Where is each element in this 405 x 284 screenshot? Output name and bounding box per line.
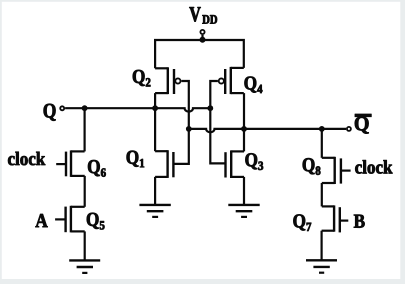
wire node Q (hop over left gate wire) xyxy=(65,108,210,111)
junction left inverter output on Q xyxy=(152,105,158,111)
ground of Q5 xyxy=(69,260,100,273)
label input B xyxy=(354,215,365,228)
junction right gates on Q xyxy=(207,105,213,111)
transistor Q8 xyxy=(322,157,351,184)
Q terminal xyxy=(60,106,64,110)
ground of Q3 xyxy=(228,205,259,217)
node Q label xyxy=(44,104,56,121)
wire VDD stem xyxy=(201,35,203,40)
label Q7 xyxy=(293,214,311,231)
junction right inverter output on Qbar xyxy=(241,126,247,132)
label input A xyxy=(35,214,47,227)
label Q1 xyxy=(127,151,144,168)
wire Q7 source to ground xyxy=(321,231,323,261)
wire Q4 drain to Q3 drain xyxy=(243,93,245,151)
overline of Qbar xyxy=(355,114,371,117)
ground of Q7 xyxy=(306,260,337,272)
wire Q6 source to Q5 drain xyxy=(84,176,86,207)
node Qbar label xyxy=(355,117,369,134)
transistor Q3 xyxy=(226,150,245,178)
label clock (left) xyxy=(8,152,45,165)
wire Q2 drain to Q1 drain xyxy=(154,93,156,151)
wire Q to Q6 drain xyxy=(83,108,85,151)
VDD terminal xyxy=(200,30,204,34)
wire Q3 source to ground xyxy=(243,177,245,205)
wire Q5 source to ground xyxy=(84,231,86,261)
transistor Q4 xyxy=(219,67,244,94)
wire Q8 source to Q7 drain xyxy=(321,183,323,206)
label Q8 xyxy=(303,158,321,175)
label Q4 xyxy=(245,76,263,93)
label Q2 xyxy=(133,70,151,87)
junction Q to input branch xyxy=(82,105,88,111)
label clock (right) xyxy=(355,160,392,173)
wire Q2 and Q1 gates to Qbar xyxy=(173,81,188,164)
wire Q4 and Q3 gates to Q xyxy=(210,81,225,163)
transistor Q1 xyxy=(155,150,173,178)
transistor Q2 xyxy=(155,67,180,94)
label Q5 xyxy=(87,213,105,230)
wire VDD rail xyxy=(155,40,244,68)
transistor Q7 xyxy=(322,205,349,232)
transistor Q6 xyxy=(56,150,84,177)
label Q6 xyxy=(88,160,106,177)
wire Q1 source to ground xyxy=(154,177,156,205)
ground of Q1 xyxy=(139,205,170,217)
Qbar terminal xyxy=(347,127,351,131)
wire Qbar to Q8 drain xyxy=(321,129,323,158)
label Q3 xyxy=(245,153,263,170)
junction VDD rail xyxy=(200,37,206,43)
transistor Q5 xyxy=(55,206,85,233)
junction left gates on Qbar xyxy=(186,126,192,132)
junction Qbar to input branch xyxy=(319,126,325,132)
net VDD label xyxy=(189,7,217,24)
wire node Qbar (hop over right gate wire) xyxy=(189,129,346,132)
